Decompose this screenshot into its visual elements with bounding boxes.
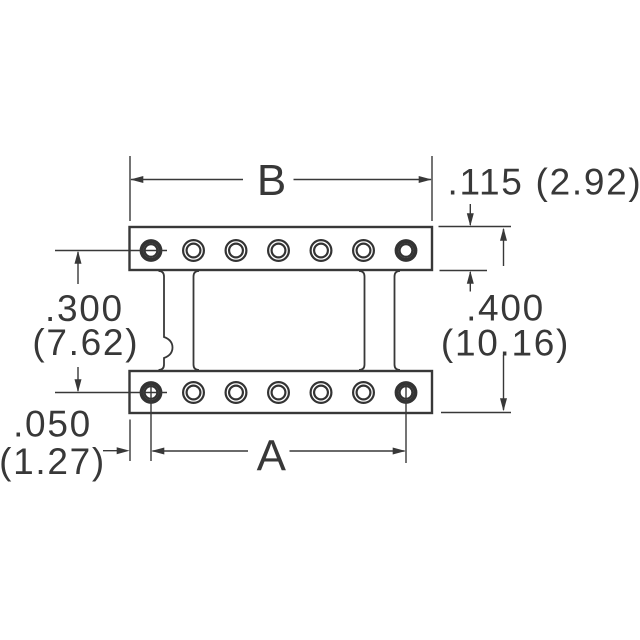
B dimension extension line right bbox=[431, 156, 433, 221]
svg-text:(1.27): (1.27) bbox=[0, 441, 106, 482]
svg-text:A: A bbox=[257, 432, 287, 481]
top pin bar bbox=[130, 227, 433, 270]
pin hole bottom 1 (plated corner) bbox=[142, 383, 161, 402]
.115 extension line bottom bbox=[440, 270, 488, 272]
A extension line through bottom pin 1 bbox=[150, 382, 152, 461]
.300 dimension line lower stem bbox=[77, 367, 79, 391]
.115 arrowhead down bbox=[467, 213, 474, 226]
pin hole bottom 4 bbox=[268, 382, 289, 403]
pin hole top 7 (plated corner) bbox=[397, 241, 416, 260]
top row centerline through pin 1 bbox=[55, 250, 167, 252]
.050 extension line from bar edge bbox=[129, 420, 131, 462]
pin hole bottom 6 bbox=[353, 382, 374, 403]
right rail outer edge bbox=[395, 271, 401, 370]
.300 dimension line upper with arrow stem bbox=[77, 252, 79, 284]
svg-text:(7.62): (7.62) bbox=[32, 322, 139, 363]
pin hole bottom 7 (plated corner) bbox=[397, 383, 416, 402]
.115 down arrow stem bbox=[469, 204, 471, 225]
A dimension line right segment bbox=[290, 450, 405, 452]
.115 up arrow stem bbox=[469, 272, 471, 292]
svg-text:.050: .050 bbox=[13, 404, 92, 445]
.115 extension line top bbox=[439, 226, 512, 228]
bottom row centerline through pin 1 bbox=[55, 392, 167, 394]
.300 arrowhead down bbox=[75, 379, 82, 392]
pin hole top 6 bbox=[353, 240, 374, 261]
A extension line through bottom pin 7 bbox=[405, 382, 407, 463]
A arrowhead left bbox=[151, 448, 164, 455]
left rail outer edge with notch bbox=[159, 271, 173, 370]
.400 upper arrow stem bbox=[503, 229, 505, 266]
bottom row pin holes bbox=[142, 382, 416, 403]
.115 arrowhead up bbox=[467, 271, 474, 284]
.400 extension line bottom bbox=[441, 412, 511, 414]
.050 arrowhead right bbox=[117, 447, 130, 454]
pin hole bottom 3 bbox=[226, 382, 247, 403]
B arrowhead right bbox=[419, 176, 432, 183]
pin hole top 3 bbox=[226, 240, 247, 261]
pin hole bottom 2 bbox=[183, 382, 204, 403]
.400 arrowhead down bbox=[500, 398, 507, 411]
A arrowhead right bbox=[393, 448, 406, 455]
.400 arrowhead up bbox=[500, 228, 507, 241]
svg-text:B: B bbox=[257, 156, 286, 205]
pin hole bottom 5 bbox=[311, 382, 332, 403]
pin hole top 1 (plated corner) bbox=[142, 241, 161, 260]
B dimension extension line left bbox=[129, 156, 131, 221]
bottom pin bar bbox=[130, 371, 433, 413]
right rail inner edge bbox=[359, 271, 365, 370]
pin hole top 2 bbox=[183, 240, 204, 261]
.400 lower arrow stem bbox=[503, 355, 505, 410]
B dimension line left segment bbox=[131, 179, 243, 181]
pin hole top 5 bbox=[311, 240, 332, 261]
.050 leader line bbox=[103, 450, 127, 452]
pin hole top 4 bbox=[268, 240, 289, 261]
B dimension line right segment bbox=[294, 179, 432, 181]
top row pin holes bbox=[142, 240, 416, 261]
svg-text:(10.16): (10.16) bbox=[441, 323, 570, 364]
svg-text:.115 (2.92): .115 (2.92) bbox=[448, 162, 640, 203]
left rail inner edge bbox=[194, 271, 200, 370]
B arrowhead left bbox=[130, 176, 143, 183]
A dimension line left segment bbox=[153, 450, 249, 452]
.300 arrowhead up bbox=[75, 251, 82, 264]
